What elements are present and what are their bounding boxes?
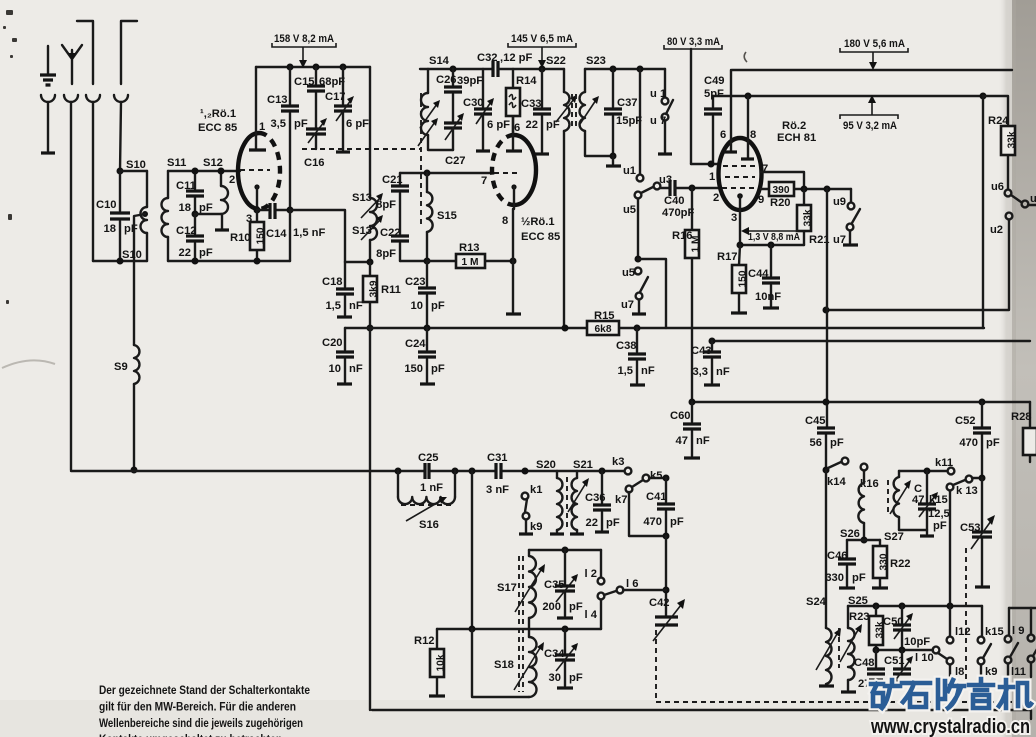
svg-text:68pF: 68pF xyxy=(319,76,345,88)
dashed gang line C16 xyxy=(302,148,420,150)
coil S16 xyxy=(398,471,455,521)
variable capacitor C53 xyxy=(971,478,995,585)
svg-text:pF: pF xyxy=(431,300,445,312)
svg-text:R14: R14 xyxy=(516,75,537,87)
svg-text:158 V 8,2 mA: 158 V 8,2 mA xyxy=(274,33,334,45)
svg-text:u9: u9 xyxy=(833,196,846,208)
svg-text:pF: pF xyxy=(670,516,684,528)
svg-text:6: 6 xyxy=(720,129,726,141)
U1a cathode pin 3 xyxy=(254,184,259,189)
svg-text:39pF: 39pF xyxy=(457,75,483,87)
switch u1 contact xyxy=(637,69,644,181)
svg-text:C14: C14 xyxy=(266,228,287,240)
U2 grids dashed xyxy=(722,166,758,188)
svg-text:8pF: 8pF xyxy=(376,199,396,211)
variable capacitor C50 10pF xyxy=(893,606,913,650)
svg-text:pF: pF xyxy=(294,118,308,130)
svg-text:u6: u6 xyxy=(991,181,1004,193)
svg-text:80 V 3,3 mA: 80 V 3,3 mA xyxy=(667,36,720,48)
svg-text:330: 330 xyxy=(879,553,890,570)
transformer core dashed double xyxy=(519,556,523,692)
capacitor C45 56pF xyxy=(817,428,835,433)
wire socket3 down to ground line xyxy=(92,102,94,261)
scan speckles xyxy=(3,10,17,304)
node C34 top xyxy=(562,626,569,633)
svg-text:k7: k7 xyxy=(615,494,627,506)
svg-text:C52: C52 xyxy=(955,415,976,427)
oscillator transformer S20 primary xyxy=(550,471,564,534)
svg-text:,12 pF: ,12 pF xyxy=(500,52,532,64)
capacitor C44 10nF xyxy=(762,245,780,306)
svg-text:l 2: l 2 xyxy=(585,568,597,580)
wire C11 junction to S12 bottom xyxy=(195,213,221,215)
resistor R22 330 xyxy=(873,540,890,586)
svg-text:150: 150 xyxy=(404,363,423,375)
svg-text:pF: pF xyxy=(933,520,947,532)
svg-text:1 nF: 1 nF xyxy=(420,482,443,494)
variable capacitor C27 xyxy=(444,113,464,150)
svg-text:k 13: k 13 xyxy=(956,485,978,497)
anode supply rail top xyxy=(256,66,370,68)
capacitor C41 470pF xyxy=(657,478,675,536)
socket contacts (4 plug sockets) xyxy=(41,95,128,102)
svg-text:S15: S15 xyxy=(437,210,457,222)
node R15 left xyxy=(562,325,569,332)
svg-text:R10: R10 xyxy=(230,232,251,244)
variable capacitor C51 xyxy=(893,650,913,681)
wire C41 column down xyxy=(665,536,667,616)
switch k14 blade xyxy=(828,458,848,468)
AVC column right corner xyxy=(982,96,984,328)
S27 bottom wire + chassis xyxy=(899,530,927,534)
svg-text:200: 200 xyxy=(542,601,561,613)
resistor R16 1M xyxy=(685,188,702,402)
svg-text:22: 22 xyxy=(526,119,538,131)
node C43 top xyxy=(709,338,716,345)
resistor R11 3k9 xyxy=(363,262,380,328)
svg-text:1,5: 1,5 xyxy=(617,365,633,377)
svg-text:390: 390 xyxy=(773,185,790,196)
node C44 top xyxy=(768,242,775,249)
antenna symbol xyxy=(62,45,82,84)
chassis S23 xyxy=(612,156,614,164)
svg-text:k14: k14 xyxy=(827,476,846,488)
measurement arrow 1,3V xyxy=(741,227,804,243)
node C47 top xyxy=(924,468,931,475)
svg-text:l12: l12 xyxy=(955,626,971,638)
svg-text:pF: pF xyxy=(199,247,213,259)
node R23 top xyxy=(873,603,880,610)
svg-text:¹,₂Rö.1: ¹,₂Rö.1 xyxy=(200,108,236,120)
svg-text:6 pF: 6 pF xyxy=(487,119,510,131)
terminal post 2 xyxy=(121,21,137,84)
capacitor C48 270 xyxy=(867,650,885,680)
capacitor C11 xyxy=(186,171,204,214)
S10 tap node xyxy=(142,211,148,217)
node C35 top xyxy=(562,547,569,554)
bottom chassis rail xyxy=(372,710,1031,719)
coil S14 variable xyxy=(418,69,453,150)
osc padder line xyxy=(876,649,933,651)
capacitor C21 8pF xyxy=(391,173,409,234)
capacitor C38 1.5nF xyxy=(628,328,646,383)
voltage label 180V xyxy=(840,38,908,70)
chassis bar pin8 xyxy=(506,312,521,315)
resistor R20 390 xyxy=(761,182,851,196)
svg-text:C48: C48 xyxy=(854,657,875,669)
node R11 bottom xyxy=(367,325,374,332)
voltage label 145V xyxy=(508,33,576,68)
svg-text:R15: R15 xyxy=(594,310,615,322)
variable capacitor C30 6pF xyxy=(474,69,494,149)
capacitor C60 47nF xyxy=(683,402,701,456)
svg-text:ECH 81: ECH 81 xyxy=(777,132,816,144)
node C37 top xyxy=(610,66,617,73)
coil S9 xyxy=(134,345,139,470)
svg-text:10k: 10k xyxy=(436,654,447,671)
node R10 bottom xyxy=(254,258,261,265)
voltage label 95V xyxy=(840,95,898,132)
svg-text:C45: C45 xyxy=(805,415,826,427)
svg-text:u5: u5 xyxy=(622,267,635,279)
S12 chassis stub xyxy=(221,214,223,229)
svg-text:8: 8 xyxy=(750,129,756,141)
svg-text:u7: u7 xyxy=(621,299,634,311)
svg-text:6: 6 xyxy=(514,122,520,134)
capacitor C14 1.5nF xyxy=(257,203,290,219)
svg-text:R13: R13 xyxy=(459,242,480,254)
svg-text:3k9: 3k9 xyxy=(369,280,380,297)
svg-text:S17: S17 xyxy=(497,582,517,594)
svg-text:R16: R16 xyxy=(672,230,693,242)
switch u5/u3 xyxy=(635,183,661,259)
S10 box top wire xyxy=(120,170,147,172)
svg-text:½Rö.1: ½Rö.1 xyxy=(521,216,555,228)
U2 pin 6 anode xyxy=(730,70,732,151)
svg-text:u1: u1 xyxy=(623,165,636,177)
svg-text:k9: k9 xyxy=(985,666,997,678)
node S15 top xyxy=(424,170,431,177)
capacitor C23 10pF xyxy=(418,261,436,328)
node C52 xyxy=(979,399,986,406)
svg-text:56: 56 xyxy=(810,437,822,449)
svg-text:3,3: 3,3 xyxy=(692,366,708,378)
svg-text:C37: C37 xyxy=(617,97,638,109)
variable capacitor C47 12.5pF xyxy=(918,471,938,530)
svg-text:C32: C32 xyxy=(477,52,498,64)
svg-text:2: 2 xyxy=(229,174,235,186)
switch column right edge xyxy=(1028,608,1036,677)
resistor R21 33k xyxy=(797,189,814,245)
dashed gang link C53 xyxy=(965,548,967,680)
svg-text:C13: C13 xyxy=(267,94,288,106)
switch k7/k5 xyxy=(626,475,666,536)
svg-text:95 V 3,2 mA: 95 V 3,2 mA xyxy=(843,120,897,132)
dashed gang bottom line xyxy=(656,701,1012,703)
svg-text:k5: k5 xyxy=(650,470,662,482)
wire C46/R22 line xyxy=(847,539,880,541)
capacitor C13 3.5pF xyxy=(281,67,299,210)
oscillator transformer S21 secondary xyxy=(568,471,589,534)
node C13 bottom / C14 xyxy=(287,207,294,214)
svg-text:nF: nF xyxy=(641,365,655,377)
switch l4/l6 xyxy=(598,587,666,629)
svg-text:u5: u5 xyxy=(623,204,636,216)
node u2 line / C45 column xyxy=(823,307,830,314)
node R13 right / pin8 xyxy=(510,258,517,265)
node C13 top xyxy=(287,64,294,71)
coil S10 xyxy=(141,171,148,261)
svg-text:nF: nF xyxy=(716,366,730,378)
wire pin8 column xyxy=(512,209,514,312)
variable capacitor C42 xyxy=(653,599,685,641)
svg-text:C60: C60 xyxy=(670,410,691,422)
capacitor C25 1nF xyxy=(425,463,429,479)
capacitor C31 3nF xyxy=(496,463,501,479)
svg-text:pF: pF xyxy=(199,202,213,214)
capacitor C20 10nF xyxy=(336,328,354,382)
svg-text:S26: S26 xyxy=(840,528,860,540)
detector line xyxy=(692,401,1030,403)
node screen right xyxy=(980,93,987,100)
svg-text:Rö.2: Rö.2 xyxy=(782,120,806,132)
svg-text:C25: C25 xyxy=(418,452,439,464)
IF line 2 xyxy=(712,340,1030,342)
svg-text:C31: C31 xyxy=(487,452,508,464)
svg-text:10: 10 xyxy=(329,363,341,375)
switch l10 xyxy=(933,647,947,659)
svg-text:C35: C35 xyxy=(544,579,565,591)
switch u2 contact xyxy=(826,213,1012,310)
wire S18 bottom xyxy=(472,629,529,697)
ground symbol (antenna input) xyxy=(40,46,56,85)
svg-text:10pF: 10pF xyxy=(904,636,930,648)
node C51 xyxy=(899,647,906,654)
capacitor C10 xyxy=(110,171,130,261)
coil S11 xyxy=(162,171,168,261)
node S26 bottom xyxy=(861,537,868,544)
note text german xyxy=(99,683,310,737)
capacitor C32 12pF xyxy=(492,61,564,77)
svg-text:nF: nF xyxy=(696,435,710,447)
node C41 top xyxy=(663,475,670,482)
IF transformer core dashed xyxy=(572,94,576,130)
node C50 top xyxy=(899,603,906,610)
svg-text:pF: pF xyxy=(830,437,844,449)
svg-text:C49: C49 xyxy=(704,75,725,87)
svg-text:12,5: 12,5 xyxy=(928,508,950,520)
HT line top xyxy=(732,69,1012,71)
node C38 top xyxy=(634,325,641,332)
transformer core dashed xyxy=(566,477,568,531)
S17/S18 top line xyxy=(529,549,601,551)
svg-text:C43: C43 xyxy=(691,345,712,357)
node R20 line / C45 column xyxy=(824,186,831,193)
svg-text:S10: S10 xyxy=(126,159,146,171)
svg-text:R12: R12 xyxy=(414,635,435,647)
variable capacitor C16 xyxy=(306,118,327,149)
svg-text:R24: R24 xyxy=(988,115,1009,127)
U2 cathode xyxy=(737,193,743,199)
switch k15/k9 column xyxy=(978,606,991,677)
node S10 top xyxy=(117,168,124,175)
capacitor C24 150pF xyxy=(418,328,436,382)
svg-text:10nF: 10nF xyxy=(755,291,781,303)
svg-text:l8: l8 xyxy=(955,666,964,678)
node k1 xyxy=(522,468,529,475)
svg-text:8: 8 xyxy=(502,215,508,227)
capacitor C49 5pF xyxy=(704,96,722,164)
triode U1a Rö.1 ECC85 envelope xyxy=(238,133,280,209)
coil S26 xyxy=(858,471,864,540)
svg-text:C21: C21 xyxy=(382,174,403,186)
svg-text:C10: C10 xyxy=(96,199,117,211)
svg-text:pF: pF xyxy=(986,437,1000,449)
node u5 lower xyxy=(635,256,642,263)
triode U1b Rö.1 ECC85 envelope xyxy=(492,135,536,205)
svg-text:C50: C50 xyxy=(883,616,904,628)
svg-text:www.crystalradio.cn: www.crystalradio.cn xyxy=(870,715,1030,737)
faint pencil mark left edge xyxy=(2,360,55,368)
capacitor C12 xyxy=(186,214,204,261)
svg-text:3 nF: 3 nF xyxy=(486,484,509,496)
svg-text:3: 3 xyxy=(731,212,737,224)
switch k1/k9 xyxy=(519,493,533,534)
svg-text:k9: k9 xyxy=(530,521,542,533)
coil S24 variable xyxy=(816,628,841,684)
svg-text:S12: S12 xyxy=(203,157,223,169)
wire C14 junction to C18 column xyxy=(290,210,345,262)
node C11/C12 xyxy=(192,211,199,218)
wire C18 line to S13 column xyxy=(345,261,370,263)
wire k13 column down xyxy=(949,491,951,606)
svg-text:u 7: u 7 xyxy=(650,115,666,127)
svg-text:S20: S20 xyxy=(536,459,556,471)
svg-text:C53: C53 xyxy=(960,522,981,534)
switch l12/l8 column xyxy=(947,606,954,677)
U1b cathode pin 8 xyxy=(511,184,516,189)
svg-text:ECC 85: ECC 85 xyxy=(521,231,560,243)
capacitor C33 22pF xyxy=(533,69,551,152)
svg-text:S9: S9 xyxy=(114,361,128,373)
U1b anode pin 6 xyxy=(512,116,514,149)
node u1 column top xyxy=(637,66,644,73)
node C15 top xyxy=(313,64,320,71)
node C26 top xyxy=(450,66,457,73)
capacitor C52 470pF xyxy=(973,402,991,477)
node S23 bottom xyxy=(610,153,617,160)
variable capacitor C35 200pF xyxy=(555,550,578,616)
wire C45 column to S24 xyxy=(825,470,827,628)
node C36 xyxy=(599,468,606,475)
svg-text:18: 18 xyxy=(104,223,116,235)
svg-text:C17: C17 xyxy=(325,91,346,103)
wire l9 feed xyxy=(1009,607,1036,609)
svg-text:pF: pF xyxy=(852,572,866,584)
svg-text:l 10: l 10 xyxy=(915,652,934,664)
svg-text:8pF: 8pF xyxy=(376,248,396,260)
svg-text:1,5: 1,5 xyxy=(325,300,341,312)
dashed gang link C42 xyxy=(655,630,657,702)
svg-text:k3: k3 xyxy=(612,456,624,468)
svg-text:33k: 33k xyxy=(1007,131,1018,148)
svg-text:C26: C26 xyxy=(436,74,457,86)
capacitor C15 68pF xyxy=(307,67,325,128)
switch k13 xyxy=(947,476,982,491)
S27/C47 top wire xyxy=(899,470,947,472)
wire ground line right end up xyxy=(289,210,291,261)
resistor R23 33k xyxy=(869,606,886,650)
C45 column xyxy=(826,189,827,470)
switch k11 contact xyxy=(948,468,955,475)
svg-text:180 V 5,6 mA: 180 V 5,6 mA xyxy=(844,38,905,50)
svg-text:145 V 6,5 mA: 145 V 6,5 mA xyxy=(511,33,573,45)
wire u5 node to k5 column xyxy=(638,259,666,328)
resistor R13 1M xyxy=(427,254,513,268)
resistor R17 150 xyxy=(732,245,749,311)
node l12 top xyxy=(947,603,954,610)
switch k3 contact xyxy=(625,468,632,475)
svg-text:1: 1 xyxy=(259,121,265,133)
svg-text:1,5 nF: 1,5 nF xyxy=(293,227,325,239)
svg-text:C38: C38 xyxy=(616,340,637,352)
wire socket4 down to S10 xyxy=(120,102,121,171)
node C60 xyxy=(689,399,696,406)
svg-text:C44: C44 xyxy=(748,268,769,280)
svg-text:33k: 33k xyxy=(803,209,814,226)
node C17 top xyxy=(340,64,347,71)
variable capacitor C34 30pF xyxy=(555,629,578,686)
svg-text:C42: C42 xyxy=(649,597,670,609)
svg-text:l 9: l 9 xyxy=(1012,625,1024,637)
S23 row wire xyxy=(585,68,665,70)
svg-text:u: u xyxy=(1030,193,1036,205)
svg-text:Der gezeichnete Stand der Scha: Der gezeichnete Stand der Schalterkontak… xyxy=(99,683,310,697)
svg-text:S21: S21 xyxy=(573,459,593,471)
svg-text:S23: S23 xyxy=(586,55,606,67)
tracking line xyxy=(437,628,601,630)
node C49 bottom xyxy=(708,161,715,168)
node pin3 xyxy=(254,207,261,214)
svg-text:330: 330 xyxy=(825,572,844,584)
node R20/R21 xyxy=(801,186,808,193)
svg-text:pF: pF xyxy=(606,517,620,529)
svg-text:470pF: 470pF xyxy=(662,207,694,219)
capacitor C22 8pF xyxy=(391,236,409,261)
U1a grid pin 2 (dashed) xyxy=(240,169,270,171)
svg-text:C41: C41 xyxy=(646,491,667,503)
U1a anode pin 1 xyxy=(255,67,257,149)
wire S13 column down to bottom rail xyxy=(369,328,371,710)
capacitor C46 330pF xyxy=(838,540,856,586)
terminal bar xyxy=(41,151,55,154)
svg-text:S18: S18 xyxy=(494,659,514,671)
svg-text:R20: R20 xyxy=(770,197,791,209)
node S13/C18 xyxy=(367,259,374,266)
wire S17 feed column xyxy=(471,471,473,629)
capacitor C18 1.5nF xyxy=(336,262,354,315)
ground line segment S11 box to C13 column xyxy=(168,260,290,262)
coil S17 variable xyxy=(515,550,545,629)
dashed gang line vertical xyxy=(420,93,422,225)
coil S27 variable xyxy=(890,471,911,530)
ground line segment C10 box bottom xyxy=(93,260,147,262)
svg-text:6k8: 6k8 xyxy=(595,324,612,335)
wire socket1 to open end xyxy=(47,102,49,151)
svg-text:C36: C36 xyxy=(585,492,606,504)
svg-text:2: 2 xyxy=(713,192,719,204)
svg-text:l 6: l 6 xyxy=(626,578,638,590)
